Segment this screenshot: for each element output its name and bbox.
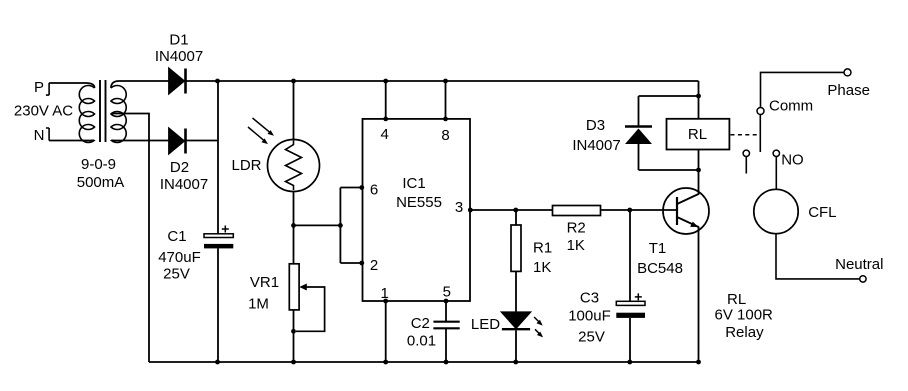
wire LDR branch vertical bbox=[293, 81, 295, 264]
node pin5 box bbox=[444, 299, 449, 304]
svg-text:BC548: BC548 bbox=[637, 260, 683, 277]
wire pin 3 row bbox=[470, 209, 677, 211]
LDR light arrow 1 bbox=[253, 118, 275, 136]
relay NC contact bbox=[743, 150, 749, 173]
diode D2 bbox=[169, 129, 186, 154]
svg-text:Comm: Comm bbox=[769, 98, 813, 115]
svg-text:R2: R2 bbox=[567, 220, 586, 237]
svg-text:1K: 1K bbox=[533, 259, 551, 276]
node D3 bottom collector bbox=[696, 168, 701, 173]
node pin4 box bbox=[383, 117, 388, 122]
svg-text:NE555: NE555 bbox=[396, 194, 442, 211]
svg-text:8: 8 bbox=[441, 127, 449, 144]
LED D4 bbox=[502, 312, 530, 362]
lamp CFL bbox=[754, 189, 798, 233]
transformer T secondary winding bbox=[111, 86, 126, 143]
node top rail C1 bbox=[215, 79, 220, 84]
svg-text:25V: 25V bbox=[163, 265, 190, 282]
svg-text:NO: NO bbox=[781, 151, 804, 168]
svg-text:P: P bbox=[34, 79, 44, 96]
LDR photoresistor bbox=[268, 140, 320, 192]
wire pin 1 stub bbox=[385, 301, 387, 362]
svg-text:N: N bbox=[34, 127, 45, 144]
svg-text:1K: 1K bbox=[567, 237, 585, 254]
svg-text:C3: C3 bbox=[580, 290, 599, 307]
relay switch arm bbox=[759, 115, 761, 152]
svg-text:CFL: CFL bbox=[808, 204, 836, 221]
wire relay coil branch vertical bbox=[698, 81, 700, 170]
wire CFL to neutral bbox=[776, 234, 860, 279]
node VR1 wiper junction bbox=[291, 329, 296, 334]
node top rail LDR bbox=[291, 79, 296, 84]
relay common terminal bbox=[757, 108, 764, 115]
svg-text:230V AC: 230V AC bbox=[14, 103, 73, 120]
wire primary bottom lead bbox=[49, 139, 94, 142]
LED light arrow 1 bbox=[534, 317, 543, 326]
node rail emitter bbox=[696, 360, 701, 365]
svg-text:LDR: LDR bbox=[232, 157, 262, 174]
resistor R2 bbox=[553, 206, 601, 216]
terminal Phase bbox=[844, 69, 851, 76]
wire pin 2 stub bbox=[340, 262, 362, 264]
svg-text:6V 100R: 6V 100R bbox=[715, 307, 774, 324]
bottom rail wire bbox=[149, 361, 699, 363]
wire secondary bottom lead to D2 bbox=[111, 139, 219, 142]
svg-text:LED: LED bbox=[471, 316, 500, 333]
node pin6 bbox=[359, 185, 364, 190]
node R2 right bbox=[627, 208, 632, 213]
svg-text:D1: D1 bbox=[169, 32, 188, 49]
svg-text:9-0-9: 9-0-9 bbox=[81, 156, 116, 173]
wire D3 top link bbox=[639, 95, 699, 97]
capacitor C3 bbox=[616, 293, 645, 318]
transistor Q1 BC548 bbox=[663, 170, 709, 362]
terminal Neutral bbox=[860, 276, 866, 282]
svg-text:4: 4 bbox=[381, 126, 389, 143]
svg-text:C1: C1 bbox=[167, 228, 186, 245]
transformer T primary winding bbox=[79, 86, 94, 143]
capacitor C1 bbox=[204, 226, 233, 249]
wire secondary top lead bbox=[111, 81, 169, 88]
svg-text:25V: 25V bbox=[578, 329, 605, 346]
node LDR junction bbox=[291, 223, 296, 228]
svg-text:IN4007: IN4007 bbox=[160, 176, 208, 193]
node top rail pin8 bbox=[443, 79, 448, 84]
wire D3 bottom link bbox=[639, 169, 699, 171]
relay NO contact bbox=[773, 150, 779, 189]
svg-text:D3: D3 bbox=[586, 117, 605, 134]
svg-text:IN4007: IN4007 bbox=[572, 137, 620, 154]
svg-text:IN4007: IN4007 bbox=[155, 48, 203, 65]
svg-text:VR1: VR1 bbox=[250, 274, 279, 291]
wire C1 branch vertical bbox=[217, 81, 219, 362]
svg-text:5: 5 bbox=[443, 284, 451, 301]
node pin2 bbox=[359, 261, 364, 266]
node D3 top bbox=[696, 94, 701, 99]
node R1 top bbox=[513, 208, 518, 213]
svg-text:T1: T1 bbox=[649, 240, 667, 257]
wire VR1 bottom bbox=[293, 310, 295, 362]
resistor R1 bbox=[511, 210, 521, 312]
LDR light arrow 2 bbox=[248, 127, 268, 144]
svg-text:470uF: 470uF bbox=[158, 249, 201, 266]
diode D1 bbox=[169, 69, 186, 94]
terminal N bracket bbox=[46, 128, 49, 141]
IC U1 NE555 box bbox=[363, 119, 471, 301]
wire pin 4 stub bbox=[385, 81, 387, 119]
svg-text:2: 2 bbox=[370, 257, 378, 274]
svg-text:100uF: 100uF bbox=[568, 308, 611, 325]
node rail VR1 bbox=[291, 360, 296, 365]
svg-text:3: 3 bbox=[455, 199, 463, 216]
svg-text:RL: RL bbox=[727, 291, 746, 308]
svg-text:D2: D2 bbox=[170, 159, 189, 176]
relay actuator dashed link bbox=[731, 134, 758, 136]
svg-text:Neutral: Neutral bbox=[835, 256, 883, 273]
potentiometer VR1 bbox=[289, 264, 324, 332]
node top rail pin4 bbox=[383, 79, 388, 84]
svg-text:0.01: 0.01 bbox=[407, 333, 436, 350]
node rail LED bbox=[513, 360, 518, 365]
wire comm to phase bbox=[761, 72, 845, 107]
node pin8 box bbox=[443, 117, 448, 122]
wire pin 6 stub bbox=[340, 187, 362, 189]
LED light arrow 2 bbox=[535, 329, 543, 337]
svg-text:1M: 1M bbox=[248, 295, 269, 312]
wire C3 branch bbox=[629, 210, 631, 362]
wire center tap bbox=[111, 114, 149, 363]
capacitor C2 bbox=[433, 322, 459, 362]
terminal P bracket bbox=[46, 83, 49, 95]
wire LDR node to pin6/2 connector bbox=[294, 224, 341, 226]
svg-text:1: 1 bbox=[381, 285, 389, 302]
node rail pin1 bbox=[383, 360, 388, 365]
wire pin 5 stub to C2 bbox=[445, 301, 447, 321]
svg-text:IC1: IC1 bbox=[402, 175, 425, 192]
wire primary top lead bbox=[49, 83, 94, 88]
svg-text:6: 6 bbox=[370, 182, 378, 199]
relay coil RL box bbox=[667, 119, 730, 150]
svg-text:500mA: 500mA bbox=[77, 174, 125, 191]
svg-text:Phase: Phase bbox=[827, 82, 870, 99]
diode D3 bbox=[625, 96, 652, 170]
node pin3 bbox=[468, 208, 473, 213]
node connector junction bbox=[338, 223, 343, 228]
node pin1 box bbox=[383, 299, 388, 304]
svg-text:C2: C2 bbox=[411, 315, 430, 332]
node rail C1 bbox=[215, 360, 220, 365]
wire pin 8 stub bbox=[445, 81, 447, 119]
svg-text:RL: RL bbox=[688, 126, 707, 143]
top rail wire bbox=[169, 80, 699, 82]
svg-text:Relay: Relay bbox=[725, 324, 764, 341]
node rail C3 bbox=[627, 360, 632, 365]
wire pin6-pin2 vertical connector bbox=[339, 188, 341, 264]
node rail C2 bbox=[444, 360, 449, 365]
svg-text:R1: R1 bbox=[533, 239, 552, 256]
transformer core bbox=[100, 80, 106, 142]
